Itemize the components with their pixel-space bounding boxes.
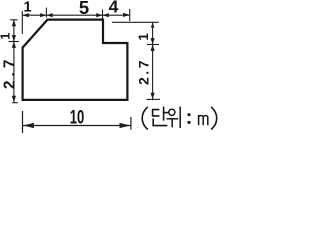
svg-text:1: 1 [0,33,12,40]
bottom dimension arrowheads [23,123,131,128]
left dimension line [9,20,19,103]
cross-section outline [23,20,128,100]
right dimension line [112,22,160,100]
svg-text:2.7: 2.7 [136,58,152,85]
svg-text:5: 5 [79,0,89,18]
svg-text:4: 4 [109,0,119,16]
bottom dimension line [23,111,131,133]
svg-text:10: 10 [70,106,85,128]
left dimension arrowheads [12,20,16,102]
svg-text:1: 1 [24,0,32,15]
unit note: colon [188,113,191,124]
svg-text:2.7: 2.7 [1,56,18,90]
svg-text:1: 1 [136,33,151,41]
top dimension line [22,8,130,34]
unit note: Hangul DAN [153,107,168,125]
unit note: ( [142,107,147,129]
unit note: ) [212,107,217,129]
top dimension arrowheads [22,13,129,17]
unit note: Hangul WI [167,107,180,127]
right dimension arrowheads [151,23,155,100]
unit note: letter m [199,115,208,125]
